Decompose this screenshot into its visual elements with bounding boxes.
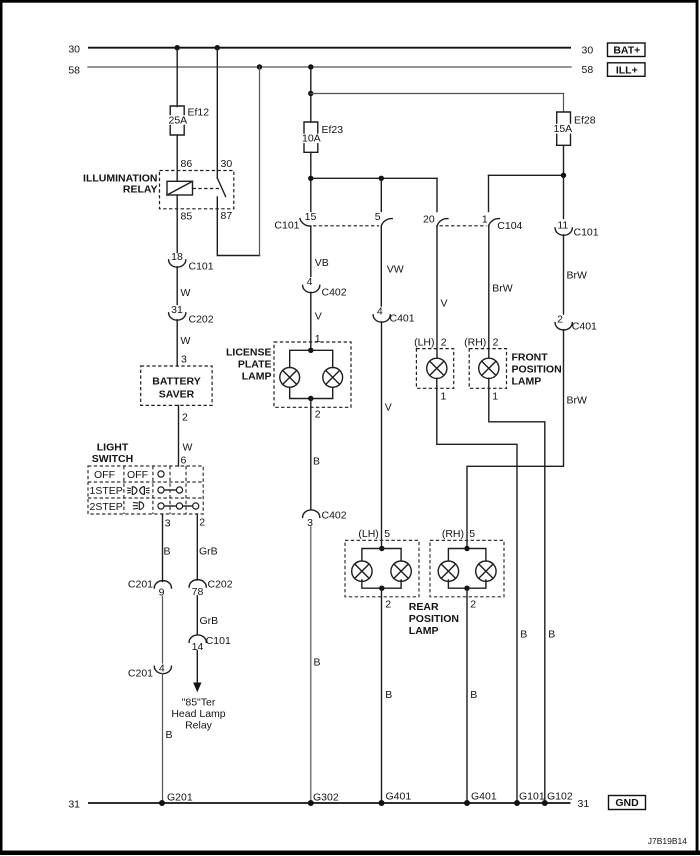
- svg-text:C402: C402: [322, 510, 347, 522]
- svg-text:C401: C401: [572, 321, 597, 333]
- connector C201 pin 9: [128, 579, 172, 599]
- rear position lamp RH dashed box: [430, 540, 504, 596]
- svg-text:W: W: [181, 335, 191, 347]
- fuse Ef23 10A: [302, 122, 343, 152]
- label (RH) 2 front: [464, 337, 498, 349]
- junction dot bus58 x259: [257, 64, 262, 69]
- svg-text:Head Lamp: Head Lamp: [171, 708, 225, 720]
- svg-text:B: B: [470, 689, 477, 701]
- svg-text:20: 20: [423, 214, 435, 226]
- license lamp bulb left: [280, 368, 300, 388]
- svg-text:18: 18: [171, 251, 183, 263]
- svg-text:C104: C104: [497, 220, 522, 232]
- BAT+ box: [608, 43, 646, 57]
- svg-text:REAR: REAR: [409, 601, 439, 613]
- fuse Ef28 15A: [554, 112, 596, 145]
- bus 30 BAT+: [88, 47, 571, 49]
- svg-text:1: 1: [482, 214, 488, 226]
- svg-text:VW: VW: [387, 264, 404, 276]
- svg-text:1STEP: 1STEP: [90, 485, 123, 497]
- svg-text:C101: C101: [189, 261, 214, 273]
- svg-text:B: B: [520, 629, 527, 641]
- svg-text:B: B: [314, 657, 321, 669]
- ground G102: [542, 791, 573, 807]
- wire C402-3 to G302, B: [311, 527, 321, 803]
- svg-text:2: 2: [199, 517, 205, 529]
- relay coil: [167, 181, 193, 195]
- svg-text:2: 2: [557, 313, 563, 325]
- svg-text:2: 2: [182, 412, 188, 424]
- label LIGHT SWITCH: [92, 442, 133, 465]
- wire riser to bus 58: [259, 67, 261, 256]
- wire C201-9 to C201-4: [162, 597, 164, 664]
- rear LH bulb right: [391, 561, 411, 581]
- svg-text:C202: C202: [208, 579, 233, 591]
- wire bus58 to fuse Ef23: [310, 67, 312, 122]
- svg-text:W: W: [181, 287, 191, 299]
- svg-text:C401: C401: [390, 313, 415, 325]
- svg-text:2: 2: [385, 599, 391, 611]
- fuse Ef12 25A: [169, 106, 210, 135]
- wire to 85Ter arrow: [196, 651, 198, 684]
- rear position lamp LH dashed box: [345, 540, 419, 596]
- switch row labels OFF 1STEP 2STEP: [90, 469, 123, 513]
- svg-text:"85"Ter: "85"Ter: [182, 697, 216, 709]
- svg-text:4: 4: [377, 306, 383, 318]
- svg-text:C402: C402: [322, 287, 347, 299]
- wire fuse Ef28 to header rail B: [563, 145, 565, 218]
- svg-text:LAMP: LAMP: [512, 376, 542, 388]
- svg-text:BAT+: BAT+: [613, 45, 640, 57]
- svg-text:SWITCH: SWITCH: [92, 453, 133, 465]
- svg-text:C202: C202: [189, 314, 214, 326]
- svg-text:58: 58: [582, 64, 594, 76]
- svg-text:85: 85: [181, 211, 193, 223]
- svg-text:2STEP: 2STEP: [90, 501, 123, 513]
- svg-text:C101: C101: [574, 226, 599, 238]
- license lamp loop top: [290, 348, 333, 368]
- front position lamp LH dashed box: [416, 349, 453, 389]
- svg-text:GND: GND: [615, 797, 639, 809]
- wire C101-11 to C401-2, BrW: [564, 235, 588, 314]
- GND box: [609, 796, 646, 810]
- svg-text:W: W: [183, 442, 193, 454]
- connector C402 pin 4: [303, 276, 347, 299]
- svg-text:5: 5: [469, 528, 475, 540]
- svg-text:3: 3: [307, 517, 313, 529]
- connector line C101 dashed: [313, 225, 379, 227]
- svg-text:3: 3: [165, 518, 171, 530]
- svg-text:Ef23: Ef23: [322, 124, 344, 136]
- svg-text:(LH): (LH): [358, 528, 378, 540]
- wire rear RH pin2 to G401, B: [467, 588, 477, 803]
- wire front LH pin1 to G101 riser: [437, 378, 517, 803]
- svg-text:1: 1: [441, 391, 447, 403]
- wire C101-18 to C202-31, W: [177, 267, 190, 305]
- label (LH) 5 rear: [358, 528, 390, 540]
- license lamp loop bottom: [290, 387, 333, 401]
- svg-text:31: 31: [171, 304, 183, 316]
- svg-text:(LH): (LH): [414, 337, 434, 349]
- svg-text:LAMP: LAMP: [409, 625, 439, 637]
- ground G101: [514, 791, 545, 807]
- junction dot railA x310: [308, 176, 313, 181]
- label ILLUMINATION RELAY: [83, 172, 157, 195]
- ILL+ box: [608, 63, 646, 77]
- svg-text:VB: VB: [315, 257, 329, 269]
- label (RH) 5 rear: [442, 528, 475, 540]
- connector C402 pin 3: [303, 510, 347, 529]
- svg-text:25A: 25A: [169, 115, 188, 127]
- label FRONT POSITION LAMP: [512, 352, 562, 388]
- connector C401 pin 2: [555, 313, 597, 332]
- connector line C104 dashed: [440, 225, 487, 227]
- svg-text:2: 2: [493, 337, 499, 349]
- ground G302: [308, 792, 339, 807]
- wire 1 to front RH lamp, BrW: [489, 226, 513, 358]
- label REAR POSITION LAMP: [409, 601, 459, 637]
- connector C101 pin 5: [375, 211, 392, 226]
- wire C401-2 down, BrW, route to rear RH lamp: [467, 330, 587, 549]
- connector C104 pin 20: [423, 214, 448, 227]
- junction dot bus58 x310: [308, 64, 313, 69]
- svg-text:10A: 10A: [302, 133, 321, 145]
- relay contact blade: [217, 178, 225, 209]
- switch contact row2: [158, 487, 183, 493]
- label "85"Ter Head Lamp Relay: [171, 697, 225, 732]
- svg-text:30: 30: [68, 43, 80, 55]
- connector C101 pin 11: [555, 220, 599, 239]
- connector C101 pin 18: [169, 251, 214, 273]
- relay coil-contact dashed link: [193, 188, 220, 190]
- svg-text:FRONT: FRONT: [512, 352, 549, 364]
- junction dot feed Ef28 branch: [308, 91, 313, 96]
- arrowhead to head lamp relay: [193, 683, 201, 693]
- wire C201-4 to G201, B: [163, 674, 173, 804]
- label LICENSE PLATE LAMP: [226, 347, 272, 383]
- svg-text:BATTERY: BATTERY: [152, 376, 200, 388]
- svg-text:Ef28: Ef28: [574, 115, 596, 127]
- rear LH loop bottom: [362, 580, 401, 591]
- bus 31 GND: [88, 802, 571, 804]
- svg-text:GrB: GrB: [200, 615, 219, 627]
- svg-text:BrW: BrW: [567, 270, 588, 282]
- svg-text:LIGHT: LIGHT: [97, 442, 129, 454]
- wire front RH pin1 to G102 riser: [489, 378, 545, 803]
- license lamp bulb right: [323, 368, 343, 388]
- connector C101 pin 14: [189, 635, 231, 653]
- switch contact row3: [158, 503, 199, 509]
- svg-text:G201: G201: [167, 792, 193, 804]
- rear RH bulb right: [476, 561, 496, 581]
- svg-text:5: 5: [375, 211, 381, 223]
- connector C104 pin 1: [482, 214, 523, 232]
- svg-text:2: 2: [315, 409, 321, 421]
- wire railB corner down to connector 1: [488, 175, 490, 211]
- label (LH) 2 front: [414, 337, 447, 349]
- svg-text:1: 1: [492, 391, 498, 403]
- svg-text:Relay: Relay: [185, 720, 213, 732]
- svg-text:9: 9: [159, 586, 165, 598]
- wire C402-4 to license lamp, V, pin 1: [311, 292, 322, 350]
- connector C202 pin 78: [189, 579, 233, 599]
- svg-text:OFF: OFF: [94, 469, 115, 481]
- front LH bulb: [427, 358, 447, 378]
- svg-text:30: 30: [582, 44, 594, 56]
- wire railA corner down to connector 20: [436, 178, 438, 211]
- rear RH loop bottom: [448, 580, 486, 591]
- svg-text:(RH): (RH): [442, 528, 464, 540]
- wire license lamp pin 2 down, B: [311, 399, 321, 510]
- svg-text:2: 2: [470, 599, 476, 611]
- wire rear LH pin2 to G401, B: [382, 588, 393, 803]
- svg-text:RELAY: RELAY: [123, 183, 158, 195]
- svg-text:V: V: [315, 311, 322, 323]
- svg-text:ILL+: ILL+: [616, 64, 638, 76]
- wire relay pin85 down: [176, 195, 178, 253]
- connector C101 pin 15: [274, 211, 316, 232]
- license plate lamp dashed box: [274, 342, 351, 407]
- svg-text:B: B: [313, 456, 320, 468]
- svg-text:3: 3: [181, 354, 187, 366]
- junction dot railB x563: [561, 173, 566, 178]
- svg-text:86: 86: [181, 158, 193, 170]
- wire railA to connector 5: [380, 178, 382, 211]
- svg-text:B: B: [548, 629, 555, 641]
- ground G201: [159, 792, 193, 807]
- svg-text:Ef12: Ef12: [188, 107, 210, 119]
- connector C401 pin 4: [373, 306, 415, 325]
- connector C202 pin 31: [169, 304, 214, 326]
- svg-text:2: 2: [441, 337, 447, 349]
- svg-text:4: 4: [307, 276, 313, 288]
- svg-text:G101: G101: [519, 791, 545, 803]
- light switch S1 dashed table: [88, 466, 203, 514]
- svg-text:B: B: [166, 729, 173, 741]
- rear RH loop top: [448, 546, 486, 563]
- svg-text:58: 58: [68, 65, 80, 77]
- svg-text:POSITION: POSITION: [512, 364, 562, 376]
- switch pin 2 wire down, GrB: [197, 514, 217, 580]
- switch position icon headlamp: [133, 502, 144, 510]
- svg-text:31: 31: [578, 798, 590, 810]
- svg-text:G302: G302: [313, 792, 339, 804]
- wire battery saver pin 2 to switch pin 6, W: [179, 405, 193, 466]
- svg-text:G401: G401: [386, 791, 412, 803]
- svg-text:87: 87: [221, 210, 233, 222]
- junction dot bus30 x177: [175, 45, 180, 50]
- ground G401 left: [379, 791, 412, 807]
- junction dot bus30 x217: [215, 45, 220, 50]
- svg-text:POSITION: POSITION: [409, 613, 459, 625]
- connector C201 pin 4: [128, 663, 172, 680]
- svg-text:G102: G102: [547, 791, 573, 803]
- wire relay pin87 down and to bus58 riser: [217, 209, 259, 256]
- wire fuse Ef12 to relay pin 86: [176, 136, 178, 182]
- wire branch down to fuse Ef28: [563, 94, 565, 113]
- wire bus30 to relay pin 30: [216, 48, 218, 178]
- battery saver dashed box: [141, 366, 212, 405]
- svg-text:C201: C201: [128, 668, 153, 680]
- wire fuse Ef23 to header: [310, 152, 312, 211]
- ground G401 right: [464, 791, 497, 807]
- rear LH bulb left: [352, 561, 372, 581]
- svg-text:PLATE: PLATE: [238, 359, 272, 371]
- svg-text:1: 1: [315, 333, 321, 345]
- wire C202-31 to battery saver, W, pin 3: [177, 320, 190, 366]
- wire bus30 to fuse Ef12: [176, 48, 178, 107]
- svg-text:LICENSE: LICENSE: [226, 347, 272, 359]
- svg-text:GrB: GrB: [199, 546, 218, 558]
- bus 58 ILL+: [88, 66, 571, 68]
- svg-text:BrW: BrW: [567, 395, 588, 407]
- wire C401-4 to rear LH lamp, V: [382, 322, 392, 549]
- header rail B: [489, 174, 564, 176]
- svg-text:BrW: BrW: [492, 283, 513, 295]
- front position lamp RH dashed box: [469, 349, 506, 389]
- relay K1 ILLUMINATION RELAY dashed box: [160, 171, 234, 209]
- svg-text:J7B19B14: J7B19B14: [648, 836, 687, 846]
- wire C202-78 to C101-14, GrB: [197, 596, 218, 635]
- svg-text:6: 6: [181, 455, 187, 467]
- header rail A: [311, 177, 437, 179]
- wire C101-15 to C402-4, VB: [311, 226, 329, 277]
- wire branch to Ef28: [311, 93, 564, 95]
- wire 5 to C401-4, VW: [381, 226, 404, 306]
- rear LH loop top: [362, 546, 401, 563]
- svg-text:C101: C101: [274, 220, 299, 232]
- svg-text:G401: G401: [471, 791, 497, 803]
- front RH bulb: [479, 358, 499, 378]
- svg-text:B: B: [164, 546, 171, 558]
- svg-text:LAMP: LAMP: [242, 371, 272, 383]
- svg-text:30: 30: [221, 158, 233, 170]
- svg-text:SAVER: SAVER: [159, 389, 195, 401]
- svg-text:C101: C101: [206, 635, 231, 647]
- svg-text:15: 15: [305, 211, 317, 223]
- svg-text:31: 31: [68, 799, 80, 811]
- svg-text:5: 5: [384, 528, 390, 540]
- svg-text:C201: C201: [128, 579, 153, 591]
- switch position icon parking lamps: [127, 487, 149, 495]
- svg-text:V: V: [385, 402, 392, 414]
- svg-text:(RH): (RH): [464, 337, 486, 349]
- wire 20 to front LH lamp, V: [437, 226, 448, 358]
- junction dot railA x381: [379, 176, 384, 181]
- switch contact row1: [158, 471, 164, 477]
- svg-text:OFF: OFF: [127, 469, 148, 481]
- switch pin 3 wire down, B: [163, 514, 171, 582]
- svg-text:B: B: [385, 689, 392, 701]
- svg-text:V: V: [441, 298, 448, 310]
- rear RH bulb left: [438, 561, 458, 581]
- svg-text:15A: 15A: [554, 123, 573, 135]
- svg-text:11: 11: [557, 220, 568, 232]
